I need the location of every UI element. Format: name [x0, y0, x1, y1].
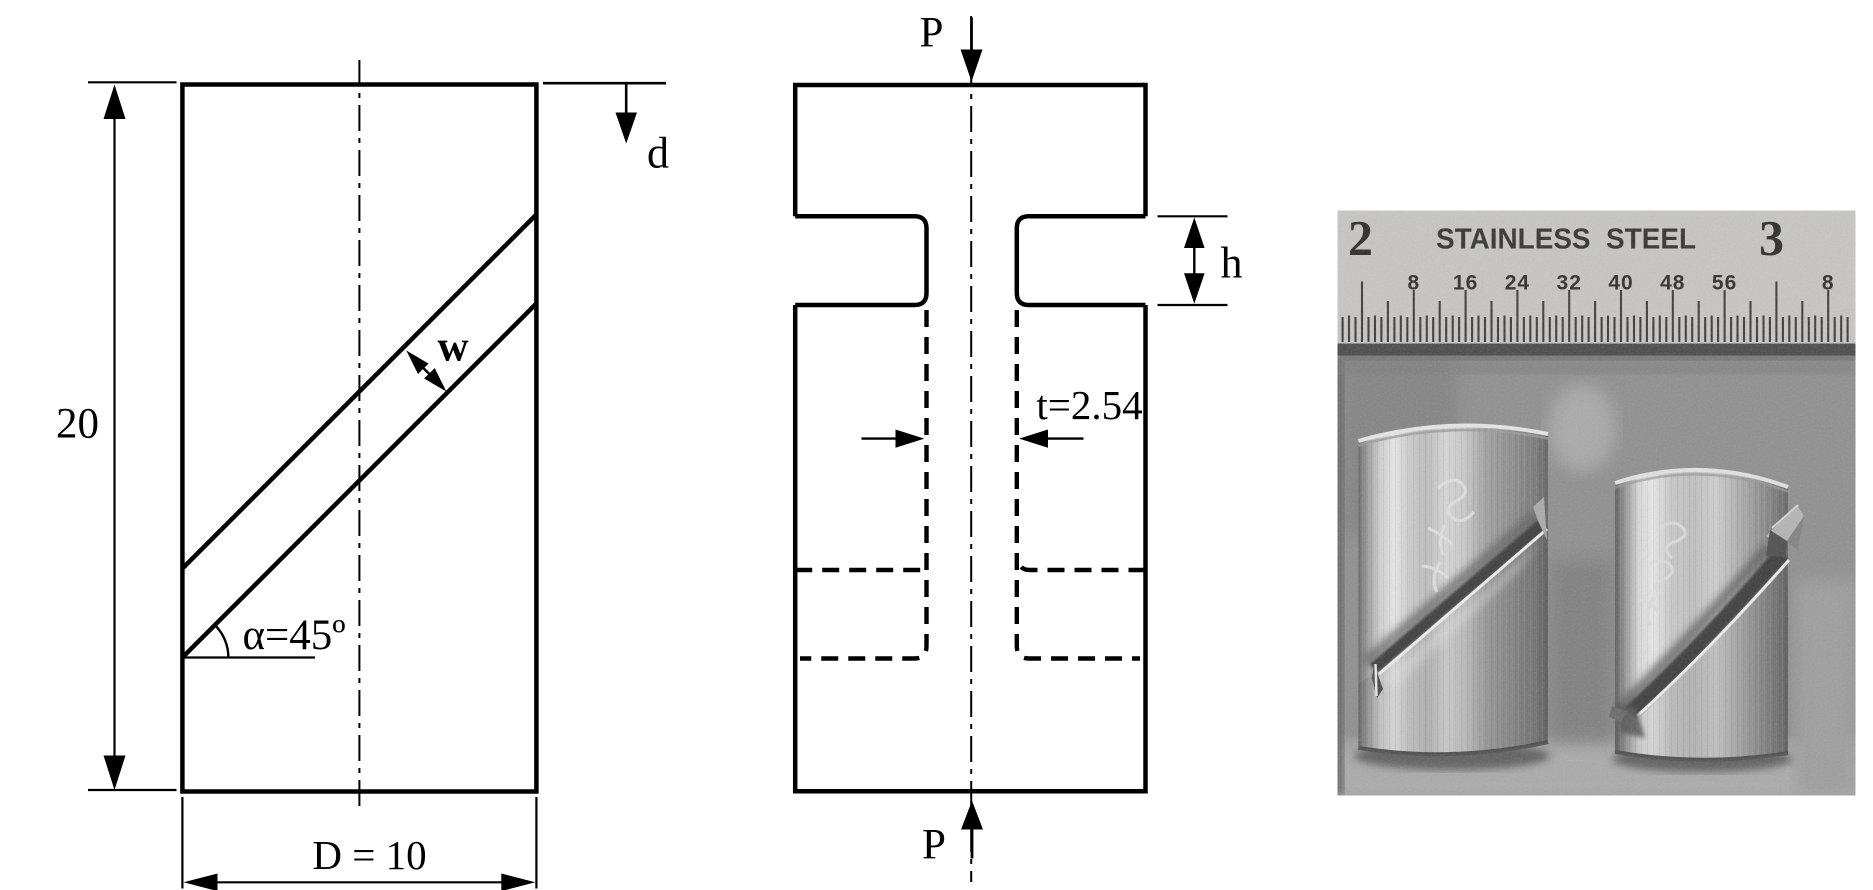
hidden slot right horizontal (dashed): [1019, 560, 1146, 570]
dimension 20 bottom extension tick: [88, 789, 177, 791]
scratched digits 122 on right cylinder: [1638, 523, 1685, 625]
alpha angle arc: [215, 625, 229, 658]
left chip tip details lower-left: [1372, 664, 1383, 698]
hidden slot right vertical (dashed): [1017, 310, 1140, 659]
h dimension bottom extension line: [1158, 304, 1228, 306]
shadow under right cylinder: [1612, 746, 1792, 772]
faint photo grain: [1338, 211, 1856, 796]
top-right extension line for d: [543, 82, 666, 85]
left shear chip soft upper shadow: [1362, 511, 1540, 667]
dimension D=10 horizontal dimension line: [208, 881, 512, 883]
left chip bright zone below edge: [1382, 542, 1540, 688]
d leader line: [625, 83, 628, 114]
right cylinder dark shear band: [1624, 548, 1788, 718]
lower 45-degree band line: [182, 304, 536, 658]
soft shadow under the rule: [1338, 360, 1856, 374]
left cylinder top rim highlight: [1358, 425, 1548, 441]
left shear chip dark band: [1370, 519, 1547, 673]
dimension 20 vertical dimension line: [113, 110, 115, 765]
shadow under left cylinder: [1354, 742, 1550, 770]
right flap protruding top-right: [1766, 505, 1804, 546]
scratched digits 118 on left cylinder: [1422, 480, 1474, 592]
P top load arrow: [970, 18, 973, 52]
right notch and web edge: [1017, 216, 1146, 305]
dimension D=10 right extension line: [535, 797, 537, 889]
background lighter zone right of right cylinder: [1795, 580, 1857, 795]
left chip pale wedge at top end: [1533, 497, 1547, 540]
vertical centerline (dash-dot) of left specimen: [358, 60, 360, 812]
upper grip block outline: [795, 85, 1145, 216]
photo background: [1338, 211, 1856, 796]
svg-text:d: d: [647, 129, 669, 178]
background lighter bottom strip: [1330, 742, 1865, 802]
svg-text:h: h: [1221, 239, 1243, 288]
dimension 20 top extension tick: [88, 81, 177, 83]
stainless steel rule across the top of the photo: [1338, 211, 1856, 344]
svg-text:D = 10: D = 10: [312, 832, 426, 878]
hidden slot left horizontal (dashed): [795, 568, 924, 572]
shadow in gap between cylinders: [1550, 560, 1613, 740]
dimension D=10 right arrowhead: [501, 874, 535, 890]
P bottom load arrow: [971, 829, 974, 859]
svg-text:w: w: [437, 324, 468, 371]
specimen centerline (dash-dot): [970, 16, 972, 882]
right cylinder darker zone below band: [1615, 548, 1788, 760]
rule lower dark edge band: [1338, 344, 1856, 358]
w double-headed arrow across band: [419, 364, 434, 379]
dimension 20 upper arrowhead: [104, 85, 126, 120]
right cylinder bottom-left deformation: [1615, 702, 1645, 738]
right cylinder top rim highlight: [1615, 470, 1788, 487]
dimension D=10 left extension line: [181, 797, 183, 889]
hidden slot left vertical (dashed): [800, 310, 927, 659]
left cylinder bottom dark edge: [1358, 742, 1548, 754]
svg-text:P: P: [920, 10, 944, 57]
t dimension right arrow: [1044, 437, 1084, 439]
alpha horizontal reference line: [182, 656, 315, 658]
h dimension double arrow: [1193, 242, 1195, 279]
svg-text:20: 20: [56, 401, 99, 448]
left notch and web edge: [795, 216, 926, 305]
dimension D=10 left arrowhead: [184, 874, 218, 890]
left cylinder darker zone below shear band: [1358, 524, 1548, 754]
h dimension top extension line: [1158, 215, 1228, 217]
t dimension left arrow: [862, 437, 902, 439]
svg-text:α=45º: α=45º: [242, 612, 345, 659]
rule graduation ticks: [1342, 317, 1344, 342]
upper 45-degree band line: [182, 215, 536, 569]
svg-text:P: P: [922, 822, 946, 869]
background darker upper-left zone: [1338, 355, 1458, 535]
specimen rectangle outline: [182, 85, 536, 792]
left shear chip bright lower edge: [1379, 529, 1547, 674]
right cylinder body: [1615, 470, 1788, 760]
background dark left edge: [1334, 340, 1344, 795]
lower body outline: [795, 305, 1145, 791]
svg-text:t=2.54: t=2.54: [1036, 382, 1142, 428]
right cylinder bottom dark edge: [1615, 752, 1788, 760]
background light patch between cylinders: [1548, 384, 1616, 472]
d arrowhead: [616, 113, 638, 144]
right cylinder bright line below band: [1637, 560, 1789, 716]
left cylinder body: [1358, 425, 1548, 754]
dimension 20 lower arrowhead: [104, 756, 126, 791]
right shear chip soft upper shadow: [1618, 544, 1772, 710]
